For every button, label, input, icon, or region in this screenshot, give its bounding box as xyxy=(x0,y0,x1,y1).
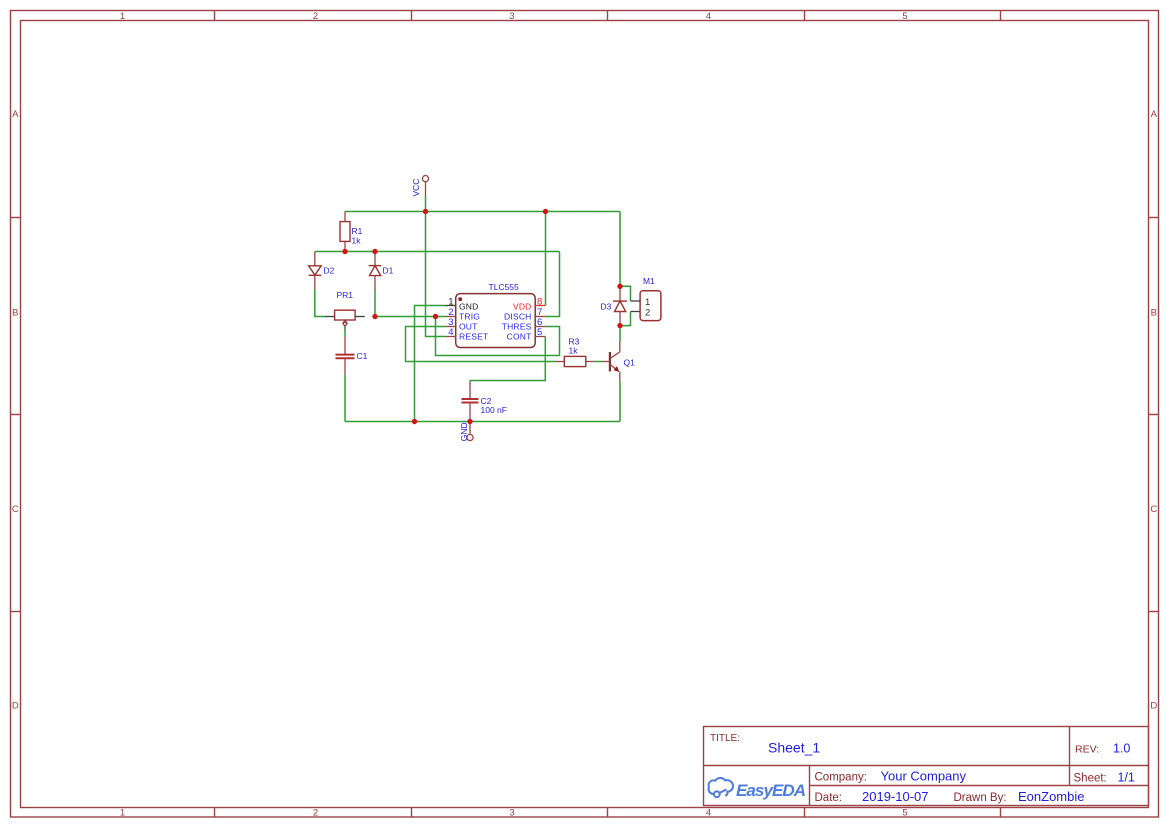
svg-text:THRES: THRES xyxy=(502,321,532,331)
wire GND pin1 xyxy=(415,306,446,422)
svg-text:EasyEDA: EasyEDA xyxy=(736,781,806,800)
wire DISCH riser xyxy=(545,252,559,317)
ruler column numbers top xyxy=(120,11,908,22)
ruler column numbers bottom xyxy=(120,808,908,819)
svg-text:RESET: RESET xyxy=(459,331,488,341)
title block outline xyxy=(704,727,1149,806)
wire bottom rail GND xyxy=(345,421,620,423)
node PR1 right xyxy=(372,314,377,319)
capacitor C2 xyxy=(462,381,479,422)
svg-text:1k: 1k xyxy=(569,345,579,355)
ruler column ticks top xyxy=(215,11,1001,21)
svg-text:PR1: PR1 xyxy=(337,290,354,300)
junction dots xyxy=(342,209,622,424)
svg-text:4: 4 xyxy=(706,808,711,819)
resistor R1 xyxy=(340,212,350,252)
svg-text:Your Company: Your Company xyxy=(881,769,967,784)
svg-text:1: 1 xyxy=(120,808,125,819)
svg-text:TLC555: TLC555 xyxy=(489,282,520,292)
node D3 top xyxy=(617,284,622,289)
wire D2 bottom to PR1 xyxy=(315,290,326,317)
wire C1 riser top xyxy=(344,330,346,337)
GND netflag xyxy=(459,422,473,442)
svg-text:M1: M1 xyxy=(643,276,655,286)
wire VCC stem xyxy=(425,196,427,212)
diode D3 xyxy=(613,286,627,325)
svg-text:Q1: Q1 xyxy=(624,357,636,367)
wire M1 pin2 loop xyxy=(620,312,631,326)
capacitor C1 xyxy=(336,336,355,375)
pin 8 VDD stub xyxy=(535,305,545,307)
wire CONT loop to C2 xyxy=(470,337,545,381)
svg-text:C: C xyxy=(1150,504,1157,515)
node VCC rail right xyxy=(543,209,548,214)
svg-text:VDD: VDD xyxy=(513,301,532,311)
svg-text:A: A xyxy=(1151,109,1158,120)
svg-text:TITLE:: TITLE: xyxy=(710,733,740,744)
node GND rail C2 xyxy=(467,419,472,424)
svg-text:D: D xyxy=(1150,701,1157,712)
pin 5 CONT stub xyxy=(535,336,545,338)
ruler row letters right xyxy=(1150,109,1157,712)
svg-text:TRIG: TRIG xyxy=(459,311,480,321)
potentiometer PR1 xyxy=(325,310,365,329)
wire DISCH rail row xyxy=(315,251,560,253)
svg-text:1k: 1k xyxy=(352,236,362,246)
svg-text:4: 4 xyxy=(706,11,711,22)
svg-text:VCC: VCC xyxy=(411,179,421,197)
node D3 bottom xyxy=(617,323,622,328)
svg-text:1: 1 xyxy=(120,11,125,22)
svg-text:2: 2 xyxy=(645,307,650,318)
svg-text:Sheet:: Sheet: xyxy=(1074,773,1107,785)
svg-text:DISCH: DISCH xyxy=(504,311,531,321)
wire TRIG row xyxy=(375,316,445,318)
svg-text:A: A xyxy=(12,109,19,120)
diode D1 xyxy=(369,252,382,291)
wire C1 riser bottom xyxy=(344,375,346,422)
svg-text:B: B xyxy=(12,308,18,319)
svg-text:1.0: 1.0 xyxy=(1113,742,1130,756)
ruler row ticks right xyxy=(1149,218,1159,612)
op-amp U1 TLC555 body xyxy=(456,294,536,348)
wire Q1 emitter down xyxy=(619,381,621,422)
wire OUT loop to R3 xyxy=(406,327,557,362)
resistor R3 xyxy=(556,356,594,366)
svg-text:CONT: CONT xyxy=(507,331,532,341)
svg-text:8: 8 xyxy=(537,296,542,307)
pin 4 RESET stub xyxy=(445,336,456,338)
EasyEDA logo cloud xyxy=(709,778,733,797)
ruler column ticks bottom xyxy=(215,808,1001,818)
wire top rail VCC xyxy=(345,211,620,213)
svg-text:Company:: Company: xyxy=(815,772,867,784)
wire top rail to D3 xyxy=(619,212,621,287)
svg-text:GND: GND xyxy=(459,422,469,441)
wire M1 pin1 loop xyxy=(620,286,631,301)
node TRIG xyxy=(433,314,438,319)
svg-text:3: 3 xyxy=(509,11,514,22)
svg-text:5: 5 xyxy=(902,808,907,819)
svg-text:4: 4 xyxy=(448,327,453,338)
svg-text:C1: C1 xyxy=(357,351,368,361)
svg-text:1: 1 xyxy=(645,297,650,308)
connector M1 xyxy=(631,291,661,321)
node R1 bottom xyxy=(342,249,347,254)
svg-text:2: 2 xyxy=(313,11,318,22)
pin 3 OUT stub xyxy=(445,326,456,328)
svg-text:REV:: REV: xyxy=(1075,744,1099,756)
svg-text:5: 5 xyxy=(902,11,907,22)
wire VDD pin8 riser xyxy=(545,212,547,306)
svg-text:Date:: Date: xyxy=(815,792,843,804)
svg-text:2: 2 xyxy=(313,808,318,819)
wire D1 bottom xyxy=(374,290,376,317)
svg-text:R1: R1 xyxy=(352,226,363,236)
wire R3 gap segment xyxy=(594,361,601,363)
node D1 top xyxy=(372,249,377,254)
svg-text:D: D xyxy=(12,701,19,712)
transistor Q1 xyxy=(601,342,620,381)
svg-text:GND: GND xyxy=(459,301,479,311)
svg-text:100 nF: 100 nF xyxy=(481,405,507,415)
node GND rail left xyxy=(412,419,417,424)
svg-text:D1: D1 xyxy=(383,266,394,276)
svg-text:C: C xyxy=(12,504,19,515)
svg-text:OUT: OUT xyxy=(459,321,478,331)
svg-text:D3: D3 xyxy=(601,301,612,311)
diode D2 xyxy=(309,252,322,291)
svg-text:D2: D2 xyxy=(324,266,335,276)
wire VCC to RESET pin4 xyxy=(426,212,446,337)
svg-text:EonZombie: EonZombie xyxy=(1018,789,1084,804)
pin 6 THRES stub xyxy=(535,326,545,328)
svg-text:1: 1 xyxy=(448,296,453,307)
ruler row ticks left xyxy=(11,218,21,612)
svg-text:B: B xyxy=(1151,308,1157,319)
svg-text:2019-10-07: 2019-10-07 xyxy=(862,789,929,804)
pin 2 TRIG stub xyxy=(445,316,456,318)
svg-text:Sheet_1: Sheet_1 xyxy=(768,740,820,756)
VCC netflag xyxy=(411,176,429,197)
svg-text:Drawn By:: Drawn By: xyxy=(954,792,1007,804)
wire D3 to Q1 collector xyxy=(619,326,621,342)
ruler row letters left xyxy=(12,109,19,712)
svg-text:5: 5 xyxy=(537,327,542,338)
svg-text:3: 3 xyxy=(509,808,514,819)
pin 7 DISCH stub xyxy=(535,316,545,318)
wire TRIG to THRES loop xyxy=(436,317,560,356)
node VCC rail left xyxy=(423,209,428,214)
svg-text:1/1: 1/1 xyxy=(1118,771,1135,785)
pin 1 GND stub xyxy=(445,305,456,307)
